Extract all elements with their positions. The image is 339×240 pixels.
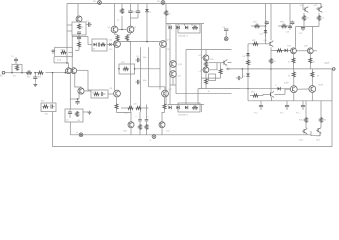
svg-text:220: 220: [134, 104, 137, 106]
svg-text:R22: R22: [252, 40, 257, 42]
wire q20 base tail: [313, 50, 317, 52]
svg-text:10: 10: [288, 62, 291, 64]
svg-text:V+: V+: [93, 0, 97, 3]
wire left vertical from rail: [66, 4, 68, 63]
svg-text:Q7: Q7: [167, 40, 171, 42]
svg-text:n: n: [148, 116, 149, 118]
node input junction a: [11, 72, 13, 74]
wire center v1: [114, 4, 116, 27]
svg-text:Q4: Q4: [108, 27, 112, 29]
diode D3: [177, 26, 180, 30]
wire v- hook: [311, 133, 320, 136]
capacitor C14: [302, 27, 304, 28]
wire r24-d9: [247, 69, 249, 74]
resistor R28: [318, 13, 320, 15]
svg-text:0.5: 0.5: [307, 18, 310, 20]
wire v201 span: [200, 50, 202, 89]
wire to ground stub: [83, 111, 88, 113]
svg-text:R5: R5: [81, 27, 85, 29]
svg-text:1k: 1k: [117, 20, 119, 22]
capacitor C20: [78, 35, 80, 37]
svg-text:C14: C14: [299, 33, 304, 35]
svg-text:R37: R37: [253, 22, 258, 24]
svg-text:R3: R3: [38, 77, 42, 79]
wire V- rail hook2: [316, 133, 320, 136]
wire center v160: [159, 47, 161, 90]
wire ground return bottom: [53, 69, 333, 147]
capacitor C12: [146, 112, 148, 120]
transistor Q16: [268, 43, 270, 45]
resistor R10 emitter: [130, 33, 132, 34]
wire h 49.5: [186, 49, 232, 51]
vas lower box: [209, 74, 216, 81]
resistor R8: [165, 4, 167, 11]
wire q19-q20 base: [296, 50, 307, 52]
resistor R5: [78, 24, 81, 30]
capacitor C15: [251, 25, 254, 27]
transistor Q5: [127, 26, 134, 33]
svg-text:C1: C1: [11, 56, 15, 58]
wire V- bottom rail: [71, 134, 311, 136]
wire v290 top: [289, 4, 291, 26]
svg-text:68p: 68p: [143, 57, 147, 59]
wire box bottom tap: [53, 57, 55, 63]
wire q10 link: [117, 113, 132, 122]
upper-left box: [72, 22, 86, 35]
transistor Q26: [269, 93, 271, 95]
node out d: [242, 68, 244, 70]
svg-text:Q12: Q12: [178, 64, 183, 66]
svg-text:n: n: [81, 38, 82, 40]
wire q21-q22 chain: [297, 88, 309, 90]
wire output line: [226, 68, 332, 70]
transistor Q22: [309, 86, 316, 93]
svg-text:n: n: [136, 116, 137, 118]
input shunt network box: [11, 64, 13, 72]
diode D8: [246, 53, 250, 56]
svg-text:Q5: Q5: [134, 27, 138, 29]
svg-text:D9: D9: [243, 76, 246, 78]
capacitor C17 inline: [227, 68, 229, 70]
diode D12: [278, 87, 281, 91]
capacitor C9 miller: [135, 59, 137, 61]
power flag V2+: [161, 1, 165, 5]
transistor Q1b: [71, 68, 77, 74]
wire q21 base: [285, 88, 290, 90]
capacitor C11: [139, 112, 141, 120]
wire center v3 cap branch: [130, 4, 132, 10]
svg-text:D1: D1: [149, 12, 152, 14]
resistor R46: [101, 43, 106, 46]
diode D10: [285, 49, 288, 53]
resistor R4 feedback: [43, 105, 49, 108]
wire pair collector right: [77, 69, 88, 71]
svg-text:4R7: 4R7: [251, 92, 256, 94]
zobel cluster 2: [286, 101, 288, 106]
feedback network box: [41, 103, 56, 112]
svg-text:V-: V-: [76, 131, 78, 134]
capacitor C5 tail: [77, 99, 79, 102]
svg-text:33k: 33k: [45, 114, 48, 116]
zobel cluster 3: [302, 101, 304, 106]
resistor R25: [270, 58, 273, 64]
capacitor C13: [289, 25, 291, 26]
svg-text:C4: C4: [86, 21, 90, 23]
wire v170: [169, 24, 171, 105]
wire tail corner: [70, 98, 79, 100]
svg-text:k: k: [81, 45, 82, 47]
resistor R41: [94, 93, 100, 96]
capacitor C23: [241, 69, 243, 78]
wire q26 to base: [284, 88, 286, 91]
resistor R29: [293, 54, 295, 58]
transistor Q15: [203, 67, 209, 73]
wire v186: [185, 50, 187, 105]
transistor Q25 cascode: [222, 62, 224, 64]
wire R12 right: [135, 68, 160, 70]
svg-text:a92: a92: [178, 76, 182, 78]
wire base feed: [54, 62, 68, 64]
capacitor C1: [15, 57, 17, 59]
svg-text:C5: C5: [66, 120, 69, 122]
wire q3 to box: [84, 90, 91, 92]
wire v176: [175, 24, 177, 64]
svg-text:D8: D8: [243, 56, 246, 58]
svg-text:R2: R2: [27, 77, 31, 79]
resistor R44: [250, 95, 253, 97]
transistor Q2 current source: [76, 16, 82, 22]
input terminal IN: [2, 71, 5, 74]
lower-left box: [65, 109, 83, 122]
wire v198: [197, 89, 199, 105]
capacitor C21: [97, 42, 99, 46]
ground G1: [89, 111, 91, 113]
capacitor C10 miller2: [135, 81, 137, 83]
wire input to RC: [5, 72, 12, 74]
ground G2: [34, 83, 36, 85]
resistor R19: [205, 61, 208, 67]
transistor Q20: [307, 48, 313, 54]
wire q16 down: [270, 47, 272, 58]
wire q4 down: [114, 41, 116, 48]
svg-text:c18: c18: [199, 71, 202, 73]
wire bias row drop: [200, 24, 202, 33]
wire h88.6: [198, 88, 240, 90]
bias bottom box: [178, 103, 200, 112]
resistor R6: [76, 111, 79, 117]
resistor R1: [16, 65, 19, 71]
svg-text:R1: R1: [13, 76, 17, 78]
svg-text:1N4148 x3: 1N4148 x3: [178, 36, 189, 38]
wire q22 emitter: [311, 92, 313, 100]
resistor R9 emitter: [114, 33, 116, 34]
transistor Q4: [111, 26, 118, 33]
wire RC to R2: [22, 72, 26, 74]
resistor R11: [192, 26, 198, 29]
wire left collector vertical: [71, 35, 73, 68]
svg-text:R·C: R·C: [254, 113, 258, 115]
transistor Q19: [291, 48, 297, 54]
wire box to Q8: [108, 93, 114, 95]
svg-text:Q20: Q20: [304, 46, 309, 48]
wire lower-left to rail: [69, 122, 71, 135]
node input junction b: [21, 72, 23, 74]
resistor R13: [116, 97, 118, 104]
wire h86.8: [149, 86, 166, 88]
transistor Q13: [170, 71, 177, 78]
svg-text:IN: IN: [0, 75, 3, 78]
bias row box: [178, 24, 200, 33]
wire center v4: [137, 4, 139, 10]
output terminal: [333, 68, 336, 71]
flag bias: [224, 37, 228, 41]
svg-text:1k: 1k: [208, 91, 210, 93]
svg-text:a92: a92: [199, 55, 203, 57]
svg-text:V+: V+: [157, 0, 161, 3]
transistor Q11: [159, 122, 165, 128]
wire mirror bases: [118, 29, 127, 31]
svg-text:C13: C13: [286, 32, 291, 34]
capacitor C2 feedback: [50, 106, 53, 108]
svg-text:Q17: Q17: [300, 5, 305, 7]
capacitor C7: [137, 9, 139, 11]
power flag V1+: [98, 1, 102, 5]
wire V- rail right hook: [310, 131, 312, 135]
wire h78.1: [201, 77, 220, 79]
svg-text:V-: V-: [150, 140, 152, 142]
wire d9 down: [247, 77, 249, 89]
diode D5: [169, 106, 172, 110]
resistor R38: [281, 25, 287, 28]
svg-text:Q24: Q24: [316, 140, 321, 142]
svg-text:Q19: Q19: [287, 46, 292, 48]
resistor R3: [38, 71, 44, 74]
transistor Q10: [128, 122, 134, 128]
transistor Q23: [302, 130, 304, 132]
resistor R26: [277, 49, 283, 52]
node base junction: [65, 72, 67, 74]
wire q11 link: [162, 113, 165, 122]
resistor R35: [305, 101, 307, 117]
diode D2: [169, 26, 172, 30]
wire q6-q7 link: [119, 41, 161, 43]
resistor R12: [123, 67, 129, 70]
resistor R31: [293, 69, 295, 72]
wire box to spine: [69, 51, 73, 53]
svg-text:68p: 68p: [143, 80, 147, 82]
wire d8-r24: [247, 56, 249, 60]
resistor R43: [145, 124, 148, 130]
wire box tick lower: [67, 30, 72, 32]
diode D1: [146, 4, 148, 10]
capacitor C4 bypass: [87, 24, 89, 26]
wire base drop: [67, 63, 69, 68]
transistor Q9: [162, 90, 169, 97]
capacitor C19 edge: [52, 49, 54, 52]
svg-text:4k7: 4k7: [168, 14, 172, 16]
wire q26 emitter: [271, 97, 273, 101]
diode D11: [264, 30, 268, 33]
diode D6: [177, 106, 180, 110]
wire drive bus y50.4: [271, 49, 291, 51]
transistor Q24: [316, 129, 318, 131]
svg-text:R36: R36: [323, 120, 328, 122]
capacitor C16: [278, 25, 281, 27]
diode D7: [185, 106, 188, 110]
svg-text:2k: 2k: [250, 62, 252, 64]
svg-text:R4: R4: [41, 101, 45, 103]
transistor Q7: [160, 41, 167, 48]
wire center v140: [140, 47, 142, 112]
wire q13 down: [172, 77, 174, 85]
wire bias bottom drop: [200, 105, 202, 113]
wire h93.7 lower: [176, 93, 232, 95]
wire center v148: [148, 47, 150, 87]
power flag V-: [79, 133, 83, 137]
resistor R27: [303, 13, 305, 15]
svg-text:R35: R35: [299, 120, 304, 122]
wire V+ top rail: [67, 3, 321, 5]
svg-text:R19: R19: [210, 59, 215, 61]
wire R2 to C18: [34, 72, 38, 74]
svg-text:D11: D11: [260, 34, 264, 36]
transistor Q3: [78, 88, 84, 94]
transistor Q1a: [66, 68, 72, 74]
wire R3 to Q1 base: [46, 72, 66, 74]
resistor R20: [205, 73, 207, 79]
resistor R45: [78, 42, 81, 48]
transistor Q21: [290, 86, 297, 93]
resistor R32: [311, 69, 313, 72]
svg-text:fltr: fltr: [93, 48, 95, 51]
resistor R21: [220, 63, 222, 69]
resistor R15: [121, 107, 128, 109]
svg-text:100n: 100n: [132, 12, 136, 14]
svg-text:NJW: NJW: [284, 83, 288, 85]
transistor Q17: [303, 9, 305, 11]
resistor R30: [309, 54, 311, 58]
svg-text:R·C: R·C: [296, 113, 300, 115]
svg-text:Q6: Q6: [109, 40, 113, 42]
capacitor C5b: [69, 109, 71, 112]
zobel cluster 1: [260, 101, 262, 106]
resistor R16: [136, 107, 142, 110]
resistor R36: [320, 101, 322, 117]
svg-text:NJW: NJW: [319, 85, 323, 87]
wire vbe to rail: [247, 89, 249, 101]
svg-text:C9: C9: [136, 56, 140, 58]
svg-text:Q9: Q9: [169, 89, 173, 91]
wire center v114 low: [114, 48, 116, 90]
resistor R2: [26, 71, 32, 74]
resistor R7: [121, 4, 123, 9]
svg-text:.33: .33: [288, 76, 292, 78]
wire bias row bottom rail: [168, 104, 204, 106]
svg-text:R38: R38: [280, 22, 285, 24]
lag network box: [91, 90, 108, 98]
wire lower rail h100.8: [248, 100, 332, 102]
diode D9: [246, 74, 250, 77]
svg-text:D: D: [276, 85, 278, 87]
wire pair emitter down: [75, 74, 81, 89]
wire q18 feed: [320, 4, 322, 9]
wire feedback to bottom: [52, 112, 54, 147]
wire q26 out: [275, 93, 286, 95]
svg-text:970: 970: [109, 49, 113, 51]
transistor Q12: [170, 61, 177, 68]
wire left tail: [69, 74, 71, 100]
svg-text:R·C: R·C: [280, 113, 284, 115]
wire upper emitter bus: [296, 26, 319, 28]
resistor R22: [253, 42, 259, 45]
transistor Q14: [203, 55, 209, 61]
wire q19 top: [295, 27, 297, 48]
wire center v130 low: [130, 41, 132, 113]
svg-text:OUT: OUT: [325, 63, 330, 65]
svg-text:220: 220: [273, 61, 276, 63]
resistor R40: [61, 51, 67, 54]
capacitor C3: [78, 31, 80, 34]
node vbe mid: [247, 68, 249, 70]
capacitor C6: [130, 9, 132, 11]
wire vas link L: [209, 63, 217, 70]
diode D13: [94, 43, 97, 47]
wire q21 emitter: [293, 93, 295, 101]
capacitor C22: [100, 92, 102, 96]
mid box R12: [119, 64, 135, 74]
wire feedback vertical: [52, 73, 54, 103]
svg-text:Q8: Q8: [109, 88, 113, 90]
resistor R18: [192, 106, 198, 109]
transistor Q8: [114, 90, 121, 97]
svg-text:Q18: Q18: [314, 5, 319, 7]
wire h43.8 top: [248, 43, 268, 45]
svg-text:0.5: 0.5: [322, 18, 325, 20]
wire box to Q6: [107, 44, 114, 46]
wire h62.7: [209, 62, 223, 64]
diode D4: [185, 26, 188, 30]
wire q16 up: [270, 4, 272, 41]
wire v303 top: [302, 4, 304, 10]
svg-text:Q23: Q23: [299, 140, 304, 142]
svg-text:Q11: Q11: [166, 131, 171, 133]
wire top-rail right end drop: [320, 4, 322, 9]
svg-text:1k: 1k: [222, 69, 224, 71]
wire h88.7 drive: [240, 88, 291, 90]
node r25 out: [270, 68, 272, 70]
input filter box: [92, 39, 107, 51]
wire v265 top: [265, 4, 267, 44]
svg-text:1N4148 x3: 1N4148 x3: [178, 115, 189, 117]
resistor R37: [254, 25, 260, 28]
svg-text:10: 10: [313, 62, 316, 64]
wire lower-left vertical: [69, 99, 71, 109]
svg-text:6mA: 6mA: [57, 59, 62, 62]
wire q20 top: [311, 27, 313, 48]
wire h36.4: [72, 35, 88, 37]
wire bias row top rail: [166, 23, 204, 25]
wire box tick upper: [67, 24, 72, 26]
capacitor C18 shunt: [34, 73, 36, 77]
wire v201 upper: [200, 33, 202, 50]
power flag V- mid: [152, 135, 156, 139]
wire vbe col top: [247, 44, 249, 53]
resistor R17: [139, 124, 142, 130]
transistor Q6: [114, 41, 121, 48]
resistor R14: [164, 97, 166, 104]
resistor R24: [247, 60, 250, 66]
left source box: [55, 47, 73, 56]
